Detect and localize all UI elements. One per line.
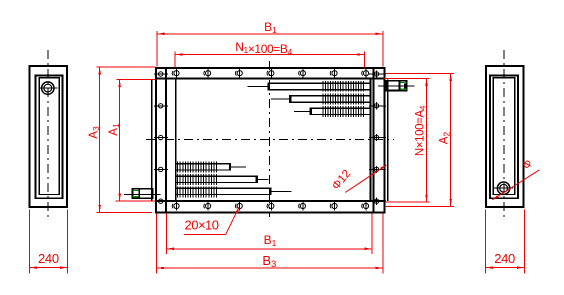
main body left side plate: [151, 79, 153, 201]
right top connection stub: [378, 80, 414, 91]
left side view outer casing: [30, 66, 68, 207]
fins T6: [177, 186, 178, 197]
finned tube T5 bottom: [177, 176, 258, 177]
top flange slot row 20x10: [172, 69, 368, 78]
dimension A1 left: [108, 79, 155, 201]
left flange hole column: [154, 72, 168, 204]
main vertical centerline: [269, 61, 271, 217]
left side view inner frame 2: [39, 78, 59, 195]
main horizontal centerline: [146, 138, 394, 140]
right side view centerline: [503, 50, 505, 221]
left bottom connection stub: [124, 188, 161, 199]
finned tube T1 top: [268, 83, 371, 84]
fins T5: [177, 174, 178, 185]
main body right side plate: [387, 79, 389, 201]
label 20x10 with leader: [184, 207, 239, 235]
left side view bolt circle: [38, 82, 57, 94]
main body bottom edge: [155, 211, 386, 213]
main body top flange inner edge: [155, 78, 386, 80]
right side view outer casing: [486, 66, 524, 207]
label phi12 with leader: [330, 165, 386, 192]
fins T4: [177, 161, 178, 172]
svg-text:240: 240: [38, 251, 59, 266]
dimension A3 left: [88, 67, 155, 213]
right side view inner frame: [490, 76, 518, 199]
svg-text:N×100=A4: N×100=A4: [415, 105, 428, 156]
bottom flange slot row 20x10: [172, 201, 368, 210]
main body bottom flange inner edge: [155, 200, 386, 202]
left side view centerline: [47, 50, 49, 221]
main body right flange edge: [383, 67, 385, 213]
right tube plate: [370, 79, 372, 201]
finned tube T6 bottom: [177, 188, 272, 189]
dimension B1 top: [157, 20, 384, 67]
svg-text:240: 240: [494, 251, 515, 266]
dimension B1 bottom: [166, 214, 373, 254]
main body top edge: [155, 67, 386, 69]
svg-text:20×10: 20×10: [184, 218, 218, 233]
dimension 240 right: [485, 210, 525, 274]
right side view inner frame 2: [493, 78, 515, 195]
dimension Nx100=A4 right: [384, 78, 430, 203]
dimension A2 right: [385, 73, 454, 207]
leader phi right view: [492, 158, 539, 200]
left tube plate: [175, 79, 177, 201]
finned tube T2 top: [289, 95, 370, 96]
fins T3: [322, 106, 323, 117]
dimension B3 bottom: [156, 214, 383, 274]
finned tube T3 top: [310, 108, 371, 109]
main body left flange edge: [155, 67, 157, 213]
right flange hole column phi12: [369, 70, 386, 204]
fins T2: [322, 93, 323, 104]
left side view inner frame: [36, 76, 63, 199]
dimension 240 left: [29, 210, 68, 274]
dimension N1x100=B4: [174, 40, 365, 67]
main body left flange inner edge: [165, 67, 167, 213]
main body right flange inner edge: [372, 67, 374, 213]
finned tube T4 bottom: [177, 163, 232, 164]
right side view bolt circle: [494, 182, 513, 194]
fins T1: [322, 81, 323, 92]
